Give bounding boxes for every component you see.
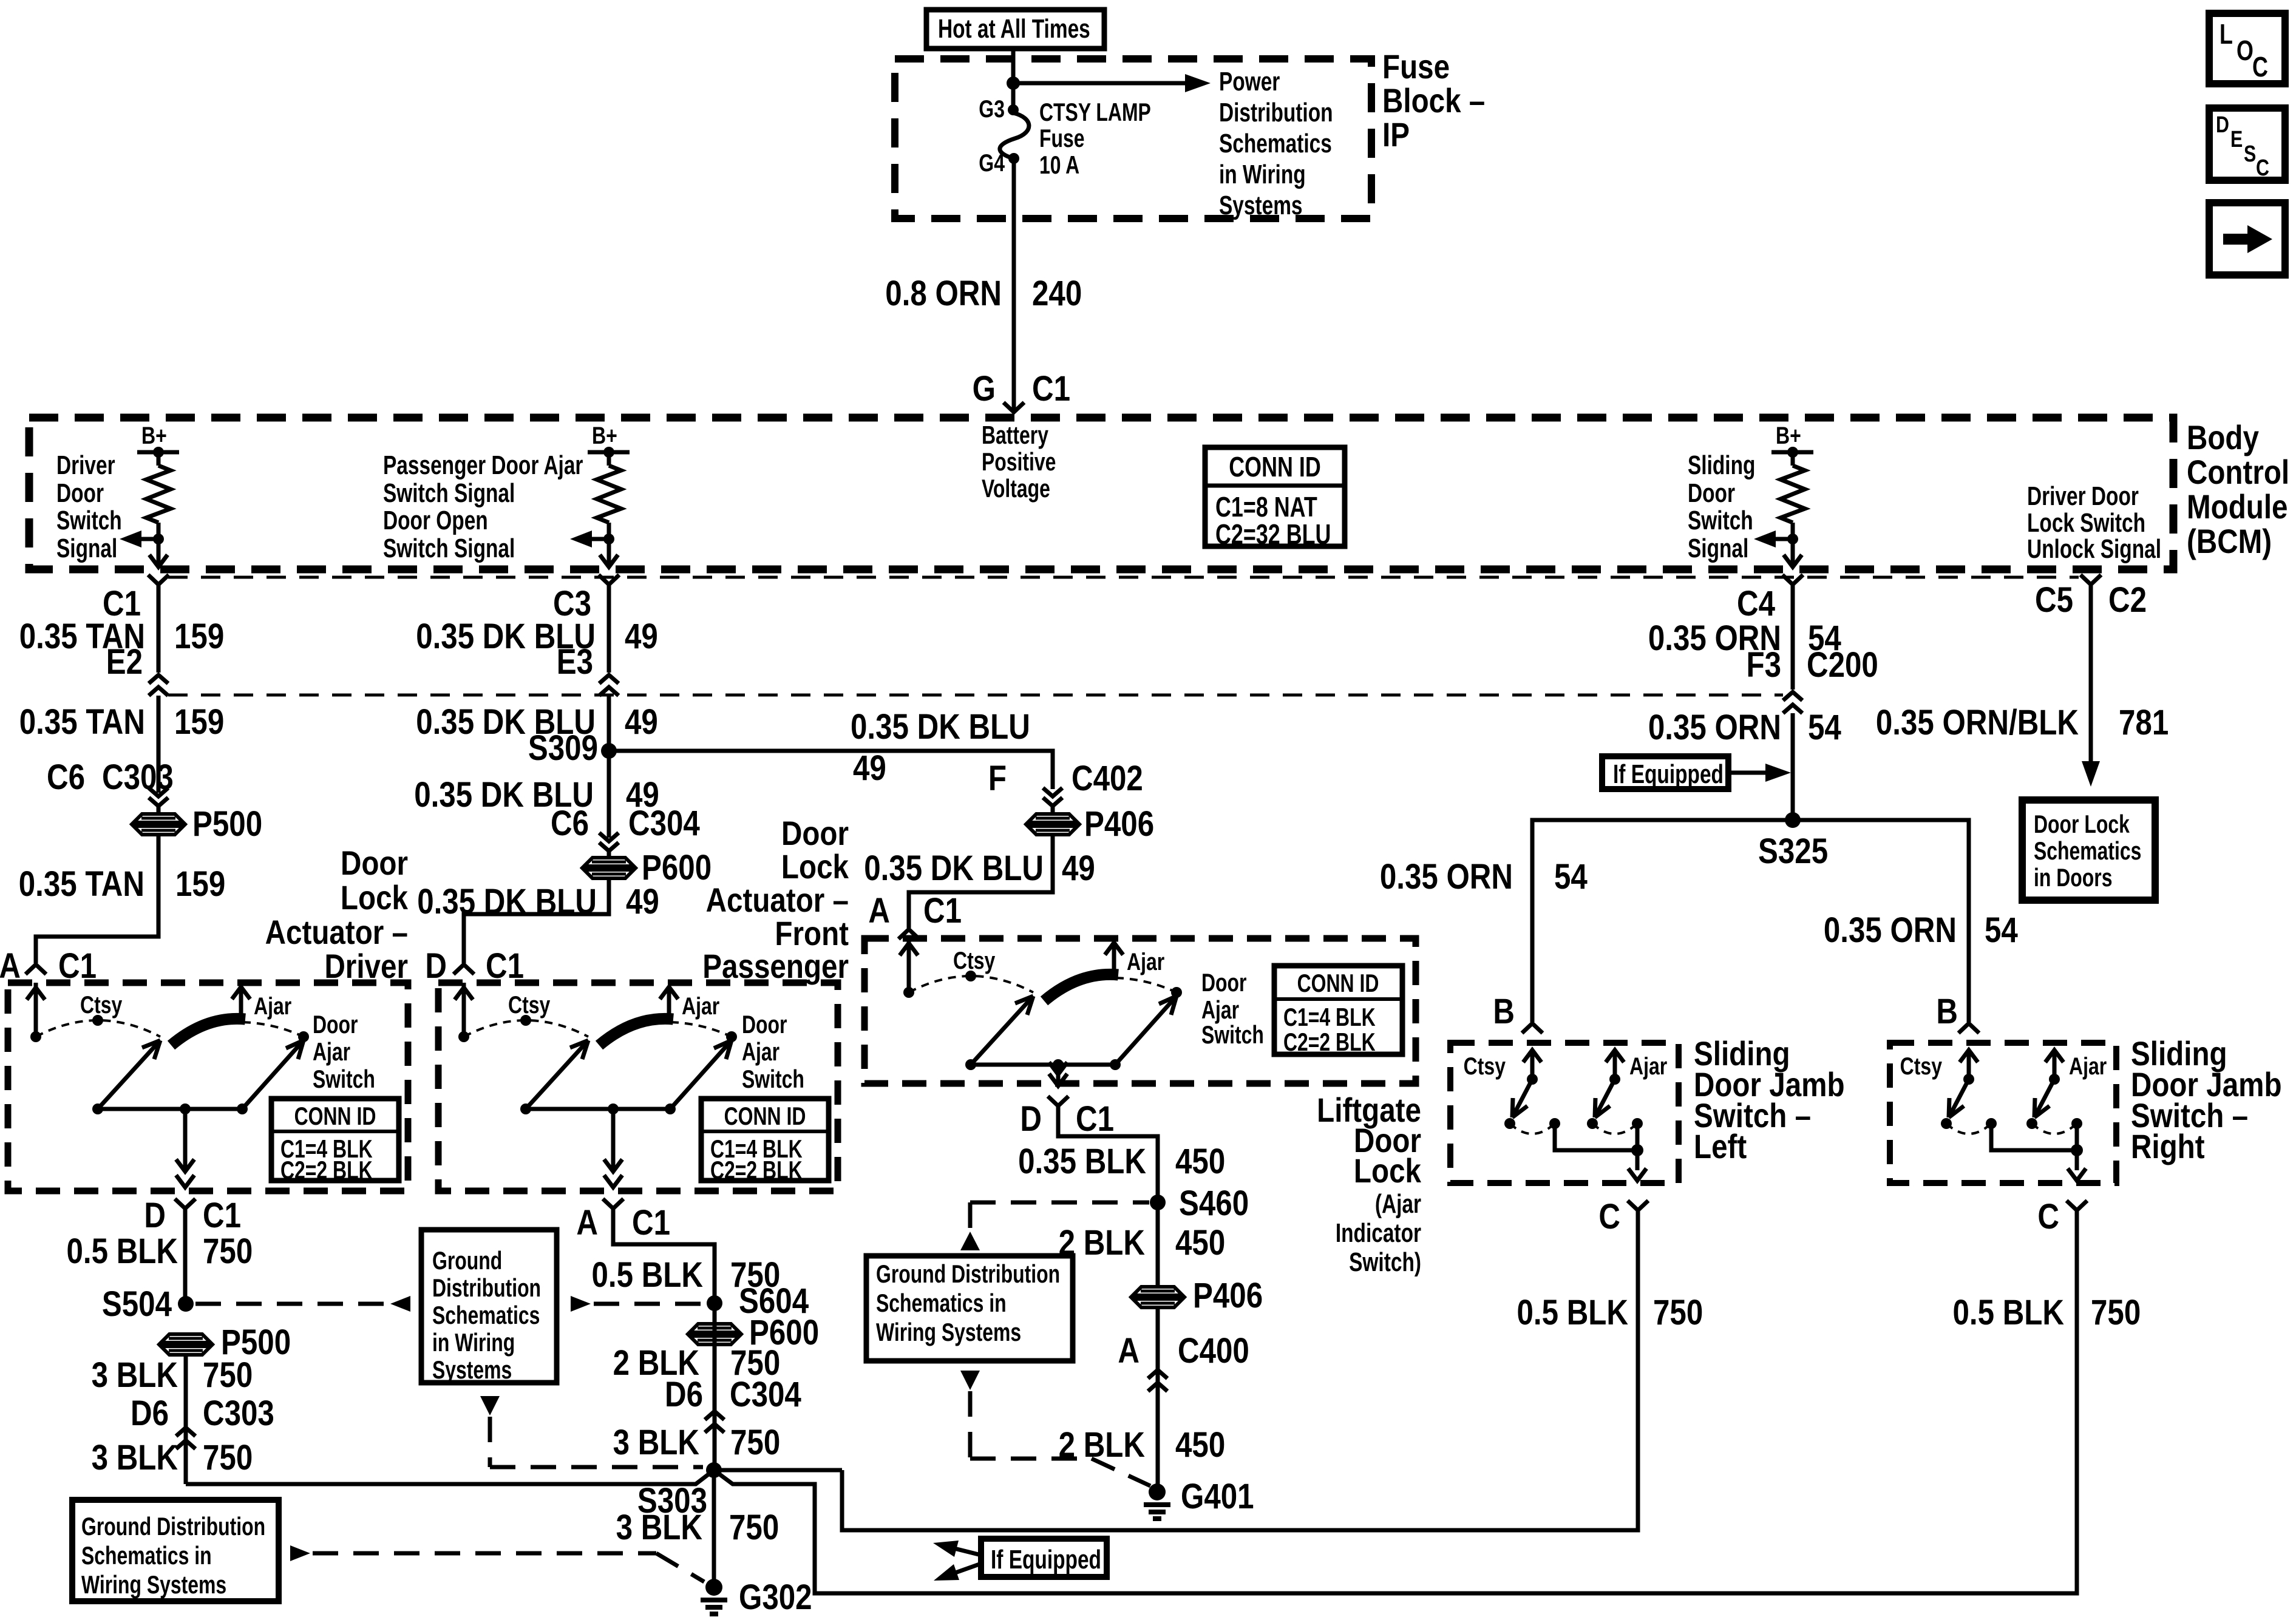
svg-text:B: B <box>1936 992 1958 1031</box>
wire label 0.35 DK BLU 49 (a) <box>416 617 658 656</box>
ground distribution schematics box mid <box>421 1230 557 1384</box>
BCM pull-up resistor driver door switch <box>120 422 179 567</box>
svg-text:750: 750 <box>729 1508 779 1547</box>
connector D6 C303 pass-through <box>131 1355 274 1484</box>
wire label 2 BLK 750 passenger <box>613 1343 781 1383</box>
svg-text:Distribution: Distribution <box>1219 98 1333 127</box>
svg-text:Ctsy: Ctsy <box>953 947 995 974</box>
passenger exit chevron A C1 <box>576 1199 670 1242</box>
svg-text:3 BLK: 3 BLK <box>92 1438 178 1477</box>
sliding door jamb switch right name <box>2131 1035 2282 1165</box>
splice S309 <box>528 728 617 768</box>
svg-text:C304: C304 <box>730 1375 801 1414</box>
grommet P600 lower <box>690 1313 819 1352</box>
svg-text:O: O <box>2237 35 2254 66</box>
liftgate switch exit wire <box>1049 1062 1067 1086</box>
svg-text:240: 240 <box>1032 274 1082 313</box>
svg-text:C1: C1 <box>632 1203 670 1242</box>
svg-text:2 BLK: 2 BLK <box>1059 1425 1146 1465</box>
wire label 2 BLK 450 lower <box>1059 1425 1226 1465</box>
grommet P406 upper <box>1028 804 1154 844</box>
driver door switch signal label <box>56 451 122 563</box>
svg-text:49: 49 <box>625 617 658 656</box>
svg-text:P406: P406 <box>1193 1276 1263 1315</box>
svg-text:Power: Power <box>1219 67 1280 97</box>
wire label 3 BLK 750 driver lower <box>92 1438 253 1477</box>
wire label 49 under branch <box>853 748 886 788</box>
svg-text:C1: C1 <box>203 1196 241 1235</box>
svg-text:Ground Distribution: Ground Distribution <box>81 1512 265 1541</box>
svg-text:0.35 ORN/BLK: 0.35 ORN/BLK <box>1876 703 2079 742</box>
battery positive voltage label <box>982 421 1056 503</box>
wire label 0.35 ORN 54 left branch <box>1380 857 1588 897</box>
svg-text:C: C <box>1598 1197 1620 1236</box>
svg-text:S309: S309 <box>528 728 598 768</box>
svg-text:3 BLK: 3 BLK <box>613 1423 700 1462</box>
pin label B left jamb <box>1493 992 1515 1031</box>
wire label 0.5 BLK 750 passenger <box>591 1255 780 1295</box>
svg-text:0.35 DK BLU: 0.35 DK BLU <box>864 849 1044 888</box>
wire P600 to passenger door <box>464 878 609 963</box>
pin label B right jamb <box>1936 992 1958 1031</box>
connector chevron into right jamb switch <box>1958 1023 1979 1033</box>
wire label 0.35 TAN 159 (a) <box>19 617 225 656</box>
svg-text:Schematics in: Schematics in <box>876 1289 1007 1317</box>
wire label 3 BLK 750 driver upper <box>92 1355 253 1395</box>
wire right jamb C to S303 net <box>714 1210 2077 1593</box>
svg-text:Switch: Switch <box>56 506 122 535</box>
BCM name label <box>2187 419 2289 560</box>
driver exit chevron D C1 <box>144 1196 241 1235</box>
svg-text:Left: Left <box>1694 1128 1747 1165</box>
right jamb exit chevron C <box>2037 1197 2087 1236</box>
svg-text:10 A: 10 A <box>1039 151 1079 179</box>
svg-text:54: 54 <box>1808 708 1841 747</box>
wire label 0.5 BLK 750 right jamb <box>1952 1293 2141 1332</box>
CONN ID box liftgate <box>1274 966 1402 1056</box>
svg-text:Door Open: Door Open <box>383 506 488 535</box>
driver door ajar switch dashed box <box>8 983 408 1191</box>
fuse CTSY LAMP 10A element <box>1000 113 1029 158</box>
wire driver D to S504 <box>183 1209 188 1304</box>
svg-text:Battery: Battery <box>982 421 1048 449</box>
connector chevron into driver actuator <box>25 964 46 974</box>
svg-text:450: 450 <box>1175 1223 1225 1263</box>
svg-text:G: G <box>973 369 996 408</box>
svg-text:C1: C1 <box>1076 1099 1114 1139</box>
fuse block IP dashed box <box>895 59 1371 219</box>
BCM pin C4 chevron <box>1737 575 1803 623</box>
passenger door ajar switch signal label <box>383 451 583 563</box>
svg-text:E: E <box>2230 127 2243 152</box>
svg-text:0.5 BLK: 0.5 BLK <box>1952 1293 2064 1332</box>
svg-text:Driver Door: Driver Door <box>2027 482 2139 511</box>
svg-text:0.35 ORN: 0.35 ORN <box>1380 857 1513 897</box>
svg-text:Schematics: Schematics <box>1219 129 1332 158</box>
svg-text:0.35 DK BLU: 0.35 DK BLU <box>417 882 597 921</box>
wire S460 to P406 <box>1156 1202 1160 1287</box>
BCM connector face dashed line <box>168 576 2079 579</box>
svg-text:D6: D6 <box>131 1394 169 1433</box>
svg-text:Ctsy: Ctsy <box>1900 1053 1942 1080</box>
BCM pin C1 chevron <box>103 575 169 623</box>
svg-text:0.35 BLK: 0.35 BLK <box>1018 1142 1146 1181</box>
svg-text:750: 750 <box>203 1438 253 1477</box>
wire BCM C1 to E2 <box>157 585 161 673</box>
door ajar switch label driver <box>313 1010 375 1093</box>
dashed ground ref from S460 <box>960 1202 1149 1250</box>
splice S504 <box>102 1284 194 1324</box>
svg-text:0.8 ORN: 0.8 ORN <box>885 274 1002 313</box>
svg-text:(BCM): (BCM) <box>2187 523 2272 560</box>
svg-text:Door: Door <box>1688 479 1735 508</box>
wire S309 to liftgate branch <box>609 751 1053 789</box>
grommet P600 upper <box>584 848 712 887</box>
sliding door jamb switch left dashed box <box>1450 1043 1679 1183</box>
svg-text:in Doors: in Doors <box>2034 863 2112 892</box>
svg-text:49: 49 <box>1062 849 1095 888</box>
wire label 0.35 DK BLU 49 (b) <box>416 702 658 742</box>
BCM pull-up resistor sliding door switch <box>1754 422 1813 567</box>
wire label 3 BLK 750 passenger <box>613 1423 781 1462</box>
svg-text:Systems: Systems <box>432 1355 512 1384</box>
svg-text:Fuse: Fuse <box>1382 48 1450 86</box>
svg-text:750: 750 <box>730 1423 780 1462</box>
wire fuse to BCM C1 pin G <box>1012 158 1016 410</box>
svg-text:Signal: Signal <box>56 534 117 563</box>
svg-text:Ajar: Ajar <box>742 1037 779 1066</box>
svg-text:Control: Control <box>2187 453 2289 491</box>
pin label G C1 <box>973 369 1070 408</box>
svg-text:Door: Door <box>56 479 104 508</box>
svg-text:750: 750 <box>203 1232 253 1271</box>
svg-text:Door: Door <box>313 1010 358 1039</box>
svg-text:Signal: Signal <box>1688 534 1748 563</box>
wire liftgate D to S460 <box>1058 1106 1158 1202</box>
passenger door ajar switch <box>455 983 737 1114</box>
sliding door jamb switch right dashed box <box>1890 1043 2116 1183</box>
svg-text:450: 450 <box>1175 1425 1225 1465</box>
svg-text:Unlock Signal: Unlock Signal <box>2027 535 2161 564</box>
svg-text:Lock: Lock <box>341 879 408 917</box>
svg-text:Module: Module <box>2187 488 2288 526</box>
wire driver ground to S303 <box>186 1470 714 1484</box>
svg-text:S460: S460 <box>1179 1184 1249 1223</box>
svg-text:Switch): Switch) <box>1349 1248 1421 1277</box>
grommet P500 upper <box>134 804 262 844</box>
svg-text:750: 750 <box>1653 1293 1703 1332</box>
svg-text:in Wiring: in Wiring <box>1219 160 1306 189</box>
svg-text:Door: Door <box>781 815 849 852</box>
connector C6 C303 pass-through <box>47 758 174 814</box>
dashed ground ref to G401 <box>960 1371 1150 1486</box>
svg-text:C2=32 BLU: C2=32 BLU <box>1215 519 1331 550</box>
svg-text:C402: C402 <box>1072 759 1143 798</box>
fuse terminal G4 <box>979 149 1019 177</box>
connector D6 C304 pass-through <box>665 1375 801 1432</box>
wire label 0.5 BLK 750 left jamb <box>1517 1293 1703 1332</box>
liftgate exit chevron D C1 <box>1020 1096 1114 1139</box>
svg-text:Lock: Lock <box>1354 1152 1421 1190</box>
svg-text:Actuator –: Actuator – <box>265 914 408 951</box>
svg-text:S: S <box>2244 141 2256 167</box>
svg-text:C4: C4 <box>1737 584 1775 623</box>
svg-text:P406: P406 <box>1084 804 1154 844</box>
svg-text:P500: P500 <box>192 804 262 844</box>
wire label 0.35 TAN 159 (b) <box>19 702 225 742</box>
svg-text:Switch Signal: Switch Signal <box>383 479 515 508</box>
harness connector dashed line E2-C200 <box>168 694 1783 697</box>
svg-text:C2=2 BLK: C2=2 BLK <box>280 1156 373 1184</box>
svg-text:54: 54 <box>1554 857 1588 897</box>
svg-text:C1: C1 <box>1032 369 1070 408</box>
svg-text:CONN ID: CONN ID <box>1229 452 1320 483</box>
svg-text:Ctsy: Ctsy <box>1464 1053 1506 1080</box>
svg-text:A: A <box>868 891 890 931</box>
wire label 0.35 ORN/BLK 781 <box>1876 703 2169 742</box>
svg-text:C303: C303 <box>203 1394 274 1433</box>
wire label 0.35 DK BLU over branch <box>851 707 1030 747</box>
svg-text:C6: C6 <box>551 804 589 843</box>
svg-text:F3: F3 <box>1746 645 1781 685</box>
svg-text:Switch: Switch <box>742 1065 804 1093</box>
splice S303 <box>637 1462 722 1520</box>
connector chevron into passenger actuator <box>453 964 474 974</box>
svg-text:49: 49 <box>625 702 658 742</box>
CONN ID box passenger actuator <box>701 1099 829 1184</box>
dashed ground ref to S604 <box>571 1296 704 1312</box>
ground distribution schematics box liftgate <box>866 1256 1073 1361</box>
junction dot fuse feed <box>1007 76 1020 90</box>
door lock schematics in doors box <box>2022 800 2155 900</box>
svg-text:G302: G302 <box>739 1578 812 1617</box>
svg-text:S504: S504 <box>102 1284 172 1324</box>
svg-text:0.5 BLK: 0.5 BLK <box>1517 1293 1628 1332</box>
if equipped flag upper <box>1602 756 1791 789</box>
svg-text:Ground: Ground <box>432 1246 502 1275</box>
svg-text:49: 49 <box>853 748 886 788</box>
svg-text:P600: P600 <box>642 848 712 887</box>
svg-text:Positive: Positive <box>982 447 1056 476</box>
passenger door ajar switch dashed box <box>438 983 838 1191</box>
svg-text:in Wiring: in Wiring <box>432 1328 515 1357</box>
BCM pull-up resistor passenger door switch <box>570 422 630 567</box>
wire left jamb C to S303 net <box>842 1210 1638 1530</box>
svg-text:0.35 ORN: 0.35 ORN <box>1824 910 1957 950</box>
svg-text:0.35 DK BLU: 0.35 DK BLU <box>851 707 1030 747</box>
door ajar switch label liftgate <box>1201 968 1264 1049</box>
svg-text:Ajar: Ajar <box>1127 948 1164 975</box>
svg-text:0.5 BLK: 0.5 BLK <box>591 1255 703 1295</box>
svg-text:Systems: Systems <box>1219 191 1303 220</box>
pin label D C1 passenger actuator <box>425 946 524 986</box>
next-page arrow box <box>2209 203 2285 275</box>
pin label A C1 driver actuator <box>0 946 97 986</box>
svg-text:159: 159 <box>175 864 225 904</box>
wire label 0.35 DK BLU 49 liftgate <box>864 849 1095 888</box>
svg-text:Distribution: Distribution <box>432 1273 541 1302</box>
connector F C402 pass-through <box>988 759 1143 814</box>
driver door lock actuator name <box>265 844 408 985</box>
wire BCM C2 to door lock schematics <box>2082 585 2100 787</box>
svg-text:G4: G4 <box>979 149 1005 177</box>
svg-text:D6: D6 <box>665 1375 703 1414</box>
svg-text:B+: B+ <box>141 422 167 449</box>
svg-text:Door Lock: Door Lock <box>2034 810 2130 838</box>
svg-text:Ajar: Ajar <box>682 992 719 1020</box>
sliding door jamb switch left internals <box>1464 1050 1668 1181</box>
svg-text:E2: E2 <box>106 642 143 682</box>
svg-text:Wiring Systems: Wiring Systems <box>876 1318 1021 1346</box>
svg-text:Ctsy: Ctsy <box>508 991 550 1019</box>
wire BCM C3 to E3 <box>607 585 611 673</box>
wire label 3 BLK 750 below S303 <box>616 1508 779 1547</box>
svg-text:Switch: Switch <box>313 1065 375 1093</box>
door ajar switch label passenger <box>742 1010 804 1093</box>
svg-text:CTSY LAMP: CTSY LAMP <box>1039 98 1151 126</box>
svg-text:0.35 TAN: 0.35 TAN <box>19 702 145 742</box>
svg-text:Door: Door <box>1201 968 1246 997</box>
svg-text:A: A <box>576 1203 598 1242</box>
Hot at All Times flag <box>926 10 1104 49</box>
DESC legend box <box>2209 108 2285 181</box>
if equipped flag lower <box>933 1539 1107 1581</box>
connector chevron into BCM <box>1004 402 1024 412</box>
wire BCM C4 to F3 <box>1791 585 1795 690</box>
connector A C400 pass-through <box>1118 1307 1249 1492</box>
sliding door jamb switch right internals <box>1900 1050 2107 1181</box>
svg-text:159: 159 <box>174 617 224 656</box>
svg-text:Sliding: Sliding <box>1688 451 1755 480</box>
sliding door switch signal label <box>1688 451 1755 563</box>
svg-text:Ajar: Ajar <box>254 992 291 1020</box>
svg-text:Lock: Lock <box>781 848 849 886</box>
left jamb exit chevron C <box>1598 1197 1648 1236</box>
wire passenger A to S604 <box>613 1209 715 1470</box>
svg-text:C: C <box>2252 52 2268 83</box>
CONN ID box driver actuator <box>271 1099 399 1184</box>
liftgate name label <box>1317 1091 1421 1277</box>
dashed ground ref mid box to S303 <box>480 1396 703 1467</box>
svg-text:C2=2 BLK: C2=2 BLK <box>1283 1028 1376 1056</box>
wire label 0.35 TAN 159 (c) <box>19 864 226 904</box>
wire S303 to left jamb riser <box>714 1468 842 1473</box>
BCM dashed box <box>29 418 2173 569</box>
ground distribution schematics box bottom <box>72 1500 279 1601</box>
svg-text:C6: C6 <box>47 758 85 797</box>
svg-text:Switch Signal: Switch Signal <box>383 534 515 563</box>
passenger switch exit wire <box>604 1109 622 1187</box>
wire label 0.35 DK BLU 49 (d) <box>417 882 659 921</box>
svg-text:49: 49 <box>626 882 659 921</box>
svg-text:(Ajar: (Ajar <box>1375 1190 1421 1219</box>
wire label 2 BLK 450 upper <box>1059 1223 1226 1263</box>
svg-text:G401: G401 <box>1181 1477 1254 1516</box>
splice S604 <box>707 1281 809 1321</box>
liftgate door lock dashed box <box>864 938 1416 1083</box>
svg-text:Ajar: Ajar <box>313 1037 350 1066</box>
wire label 0.35 DK BLU 49 (c) <box>414 775 659 815</box>
wire label 0.35 BLK 450 <box>1018 1142 1225 1181</box>
svg-text:Wiring Systems: Wiring Systems <box>81 1570 226 1599</box>
wire F3 to S325 <box>1791 713 1795 820</box>
svg-text:2 BLK: 2 BLK <box>1059 1223 1146 1263</box>
wire S325 to jamb switches <box>1532 820 1969 1022</box>
svg-text:B+: B+ <box>1776 422 1801 449</box>
svg-text:Schematics in: Schematics in <box>81 1541 212 1570</box>
svg-text:Switch: Switch <box>1201 1020 1264 1049</box>
wire S303 to G302 <box>712 1470 716 1587</box>
driver switch exit wire <box>176 1109 194 1187</box>
LOC legend box <box>2209 13 2285 84</box>
svg-text:C200: C200 <box>1807 645 1878 685</box>
svg-text:0.35 TAN: 0.35 TAN <box>19 864 144 904</box>
driver door lock switch unlock signal label <box>2027 482 2161 564</box>
dashed ground ref from S504 <box>195 1296 410 1312</box>
svg-text:Door: Door <box>341 844 408 882</box>
svg-text:Voltage: Voltage <box>982 474 1050 503</box>
svg-text:C2: C2 <box>2108 580 2147 620</box>
svg-text:Ajar: Ajar <box>1629 1053 1667 1080</box>
wire label 0.35 ORN 54 right branch <box>1824 910 2018 950</box>
connector C6 C304 pass-through <box>551 804 700 858</box>
svg-text:Ctsy: Ctsy <box>80 991 122 1019</box>
ground G401 <box>1144 1477 1254 1519</box>
svg-text:750: 750 <box>2091 1293 2141 1332</box>
connector chevron into left jamb switch <box>1522 1023 1543 1033</box>
svg-text:Actuator –: Actuator – <box>706 881 849 919</box>
svg-text:E3: E3 <box>557 642 593 682</box>
svg-text:C: C <box>2037 1197 2059 1236</box>
splice S325 <box>1758 812 1828 871</box>
connector chevron into liftgate lock <box>898 929 919 939</box>
svg-text:Hot at All Times: Hot at All Times <box>938 15 1090 44</box>
splice S460 <box>1150 1184 1249 1223</box>
svg-text:C304: C304 <box>628 804 700 843</box>
svg-text:Driver: Driver <box>56 451 115 480</box>
svg-text:Right: Right <box>2131 1128 2205 1165</box>
svg-text:F: F <box>988 759 1007 798</box>
svg-text:Lock Switch: Lock Switch <box>2027 509 2145 538</box>
svg-text:CONN ID: CONN ID <box>294 1102 376 1130</box>
svg-text:C1: C1 <box>923 891 962 931</box>
svg-text:781: 781 <box>2119 703 2169 742</box>
svg-text:D: D <box>2216 112 2229 138</box>
svg-text:54: 54 <box>1985 910 2018 950</box>
BCM pin C5 chevron <box>2035 575 2147 620</box>
wire P500 to driver door <box>36 835 158 963</box>
connector F3 C200 pass-through <box>1746 645 1878 713</box>
svg-text:B+: B+ <box>592 422 617 449</box>
svg-text:C2=2 BLK: C2=2 BLK <box>710 1156 803 1184</box>
svg-text:Switch: Switch <box>1688 506 1753 535</box>
fuse terminal G3 <box>979 95 1019 123</box>
svg-text:0.5 BLK: 0.5 BLK <box>66 1232 178 1271</box>
svg-text:750: 750 <box>203 1355 253 1395</box>
fuse value label <box>1039 98 1151 179</box>
svg-text:Indicator: Indicator <box>1336 1219 1421 1248</box>
svg-text:G3: G3 <box>979 95 1005 123</box>
svg-text:Ajar: Ajar <box>2069 1053 2107 1080</box>
svg-text:450: 450 <box>1175 1142 1225 1181</box>
svg-text:Ground Distribution: Ground Distribution <box>876 1259 1060 1288</box>
connector E3 pass-through <box>557 642 619 696</box>
passenger door lock actuator name <box>702 815 849 985</box>
power distribution schematics note <box>1219 67 1333 220</box>
svg-text:CONN ID: CONN ID <box>724 1102 806 1130</box>
svg-text:Body: Body <box>2187 419 2259 456</box>
sliding door jamb switch left name <box>1694 1035 1845 1165</box>
